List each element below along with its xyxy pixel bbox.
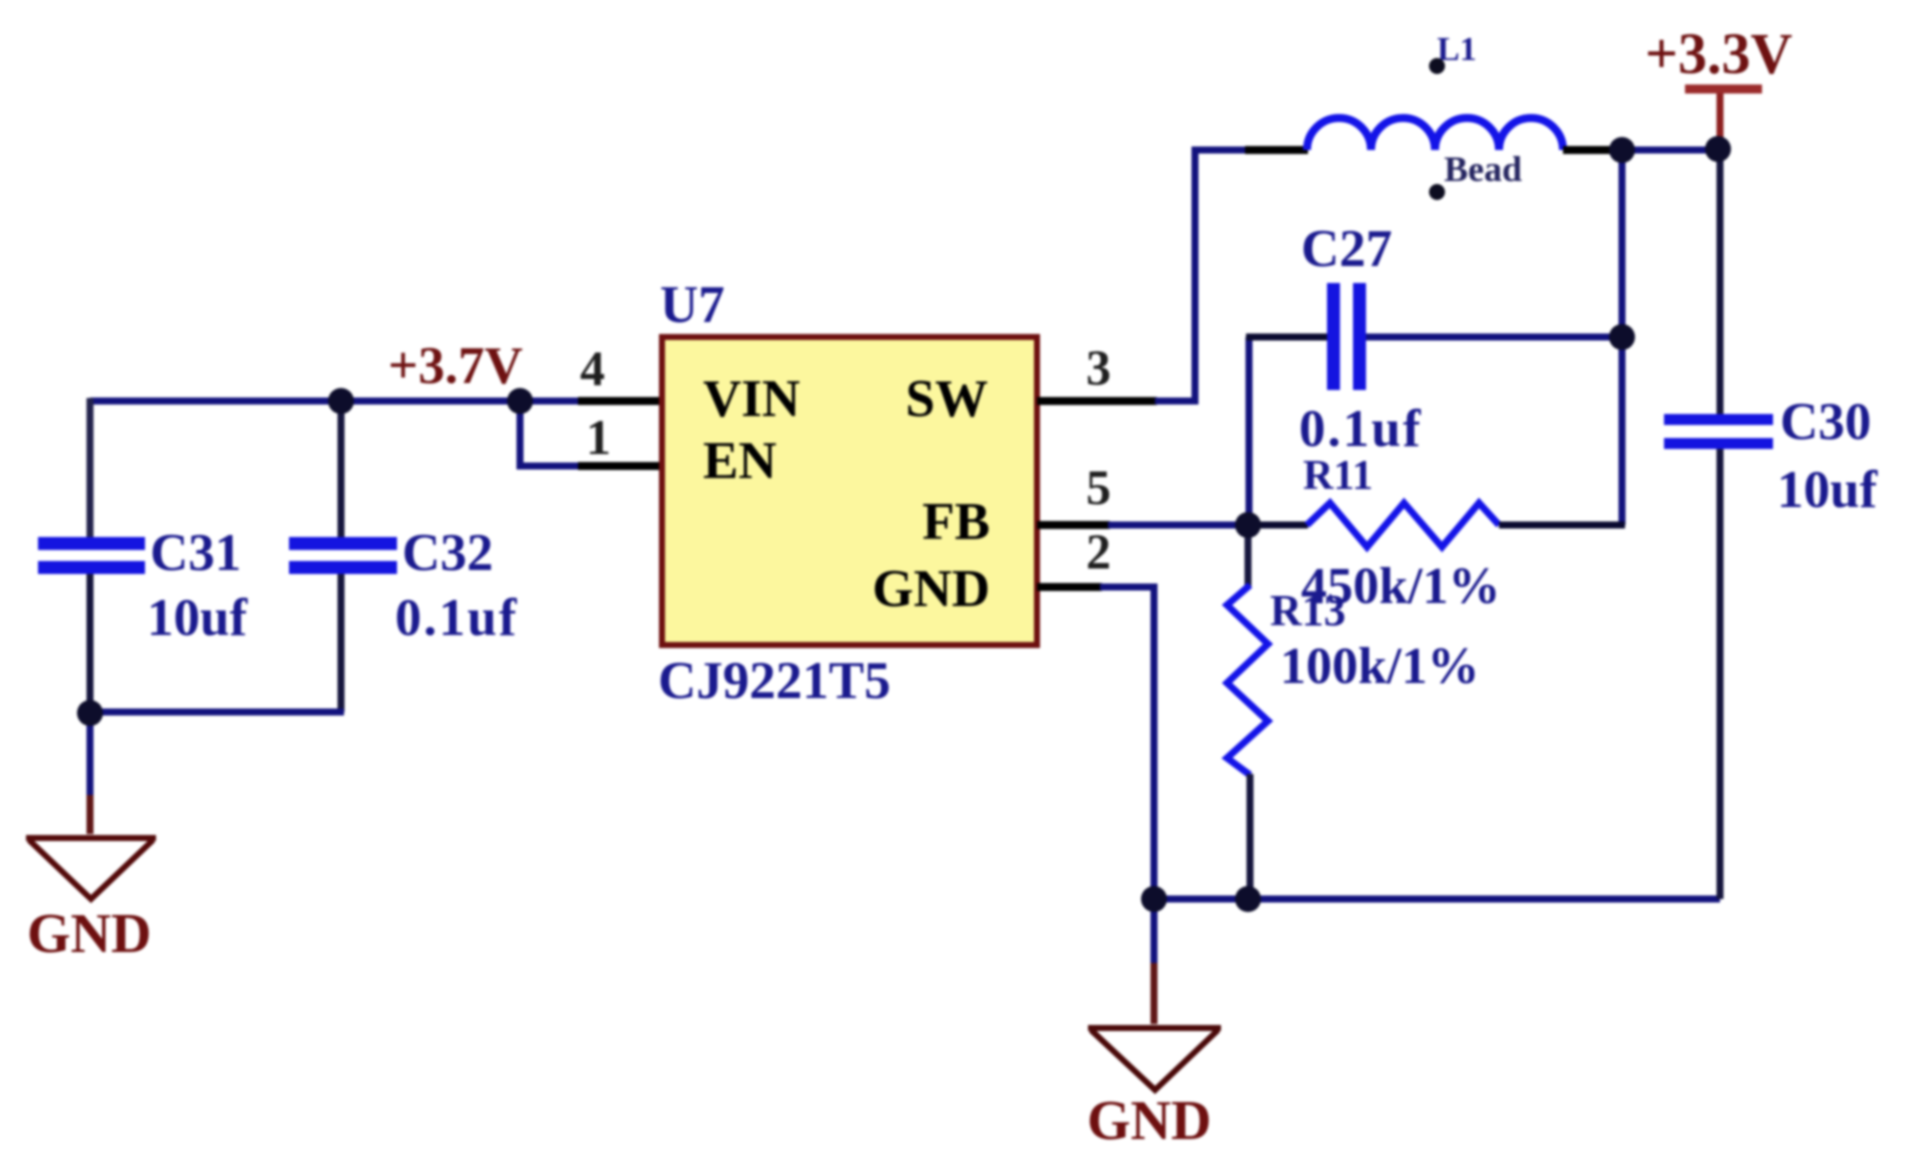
wire: VIN pin stub (pin 4) [578,397,662,405]
wire: +3.7V input rail horizontal [90,398,580,405]
svg-text:0.1uf: 0.1uf [395,589,518,647]
junction dot +3.3V node [1705,136,1731,162]
wire: right vertical C30 lower lead [1717,447,1724,899]
svg-text:+3.7V: +3.7V [388,337,523,395]
svg-text:C27: C27 [1301,220,1392,278]
svg-text:GND: GND [872,560,990,618]
junction dot C27 right [1609,324,1635,350]
junction dot C31 bottom [77,700,103,726]
capacitor C31 plates [38,537,145,574]
svg-text:C30: C30 [1780,393,1871,451]
ground symbol middle [1088,1028,1221,1090]
wire: C27 left vertical to FB node [1246,337,1253,525]
wire: FB to node [1108,522,1250,529]
power symbol +3.3V bar [1685,85,1762,94]
svg-text:Bead: Bead [1444,149,1522,189]
wire: vertical from coil node down to R11 [1619,150,1626,525]
svg-text:R11: R11 [1303,453,1373,499]
wire: inductor right to +3.3V node [1563,146,1625,154]
wire: middle GND drop lower (red) [1151,963,1158,1024]
wire: stub into inductor left [1245,146,1308,154]
wire: SW to inductor riser [1155,150,1250,401]
svg-text:GND: GND [1087,1090,1211,1152]
wire: middle GND drop [1151,899,1158,963]
wire: node to +3.3V stem [1622,147,1720,154]
wire: left GND drop [87,713,94,795]
wire: SW pin stub (pin 3) [1037,397,1157,405]
svg-text:C32: C32 [402,524,493,582]
ground symbol left [26,838,156,899]
wire: R13 top lead [1245,522,1252,586]
svg-text:4: 4 [580,340,605,396]
power symbol +3.3V stem [1717,90,1724,150]
capacitor C32 plates [289,537,397,574]
junction dot FB node [1235,512,1261,538]
wire: C27 right lead [1366,334,1625,341]
svg-text:GND: GND [27,903,151,965]
svg-text:10uf: 10uf [147,589,248,647]
svg-text:0.1uf: 0.1uf [1299,400,1422,458]
wire: C30 upper lead [1717,148,1724,414]
svg-text:+3.3V: +3.3V [1645,21,1793,86]
wire: bottom wire joining C31 C32 [90,709,344,716]
wire: left vertical C31 upper lead [87,398,94,538]
capacitor C27 plates [1327,283,1366,390]
svg-text:C31: C31 [150,524,241,582]
junction dot +3.7V tap [507,388,533,414]
L1 anchor dot upper [1429,58,1445,74]
wire: C27 left lead [1246,334,1327,341]
resistor R13 zigzag [1227,585,1268,775]
junction dot coil output [1609,137,1635,163]
junction dot R13 bottom [1235,886,1261,912]
svg-text:3: 3 [1086,339,1111,395]
svg-text:10uf: 10uf [1777,461,1878,519]
wire: EN branch vertical from +3.7V junction [520,398,580,466]
inductor L1 coil [1307,118,1563,150]
junction dot C32 tap [328,388,354,414]
svg-text:FB: FB [922,493,990,551]
wire: R11 right lead [1499,522,1625,529]
wire: GND pin stub (pin 2) [1037,583,1102,591]
wire: C32 lower lead [338,573,345,712]
svg-text:U7: U7 [660,276,725,334]
wire: C32 upper lead [338,398,345,538]
wire: bottom ground bus [1154,896,1720,903]
L1 anchor dot lower [1429,184,1445,200]
svg-text:2: 2 [1086,523,1111,579]
wire: EN pin stub (pin 1) [578,462,662,470]
svg-text:CJ9221T5: CJ9221T5 [658,652,891,710]
svg-text:EN: EN [703,432,777,490]
wire: FB pin stub (pin 5) [1037,521,1110,529]
wire: GND pin to drop [1100,587,1154,899]
wire: FB node to R11 [1248,522,1308,529]
svg-text:100k/1%: 100k/1% [1280,638,1479,695]
junction dot ground bus left [1141,886,1167,912]
capacitor C30 plates [1664,414,1773,449]
resistor R11 zigzag [1307,503,1499,547]
svg-text:SW: SW [906,370,988,428]
svg-text:R13: R13 [1270,586,1346,635]
svg-text:1: 1 [586,409,611,465]
svg-text:5: 5 [1086,459,1111,515]
svg-text:VIN: VIN [703,370,800,428]
wire: left GND drop lower (red) [87,795,94,834]
wire: left vertical C31 lower lead [87,573,94,716]
wire: R13 bottom lead [1247,774,1254,900]
IC U7 body [662,337,1037,645]
